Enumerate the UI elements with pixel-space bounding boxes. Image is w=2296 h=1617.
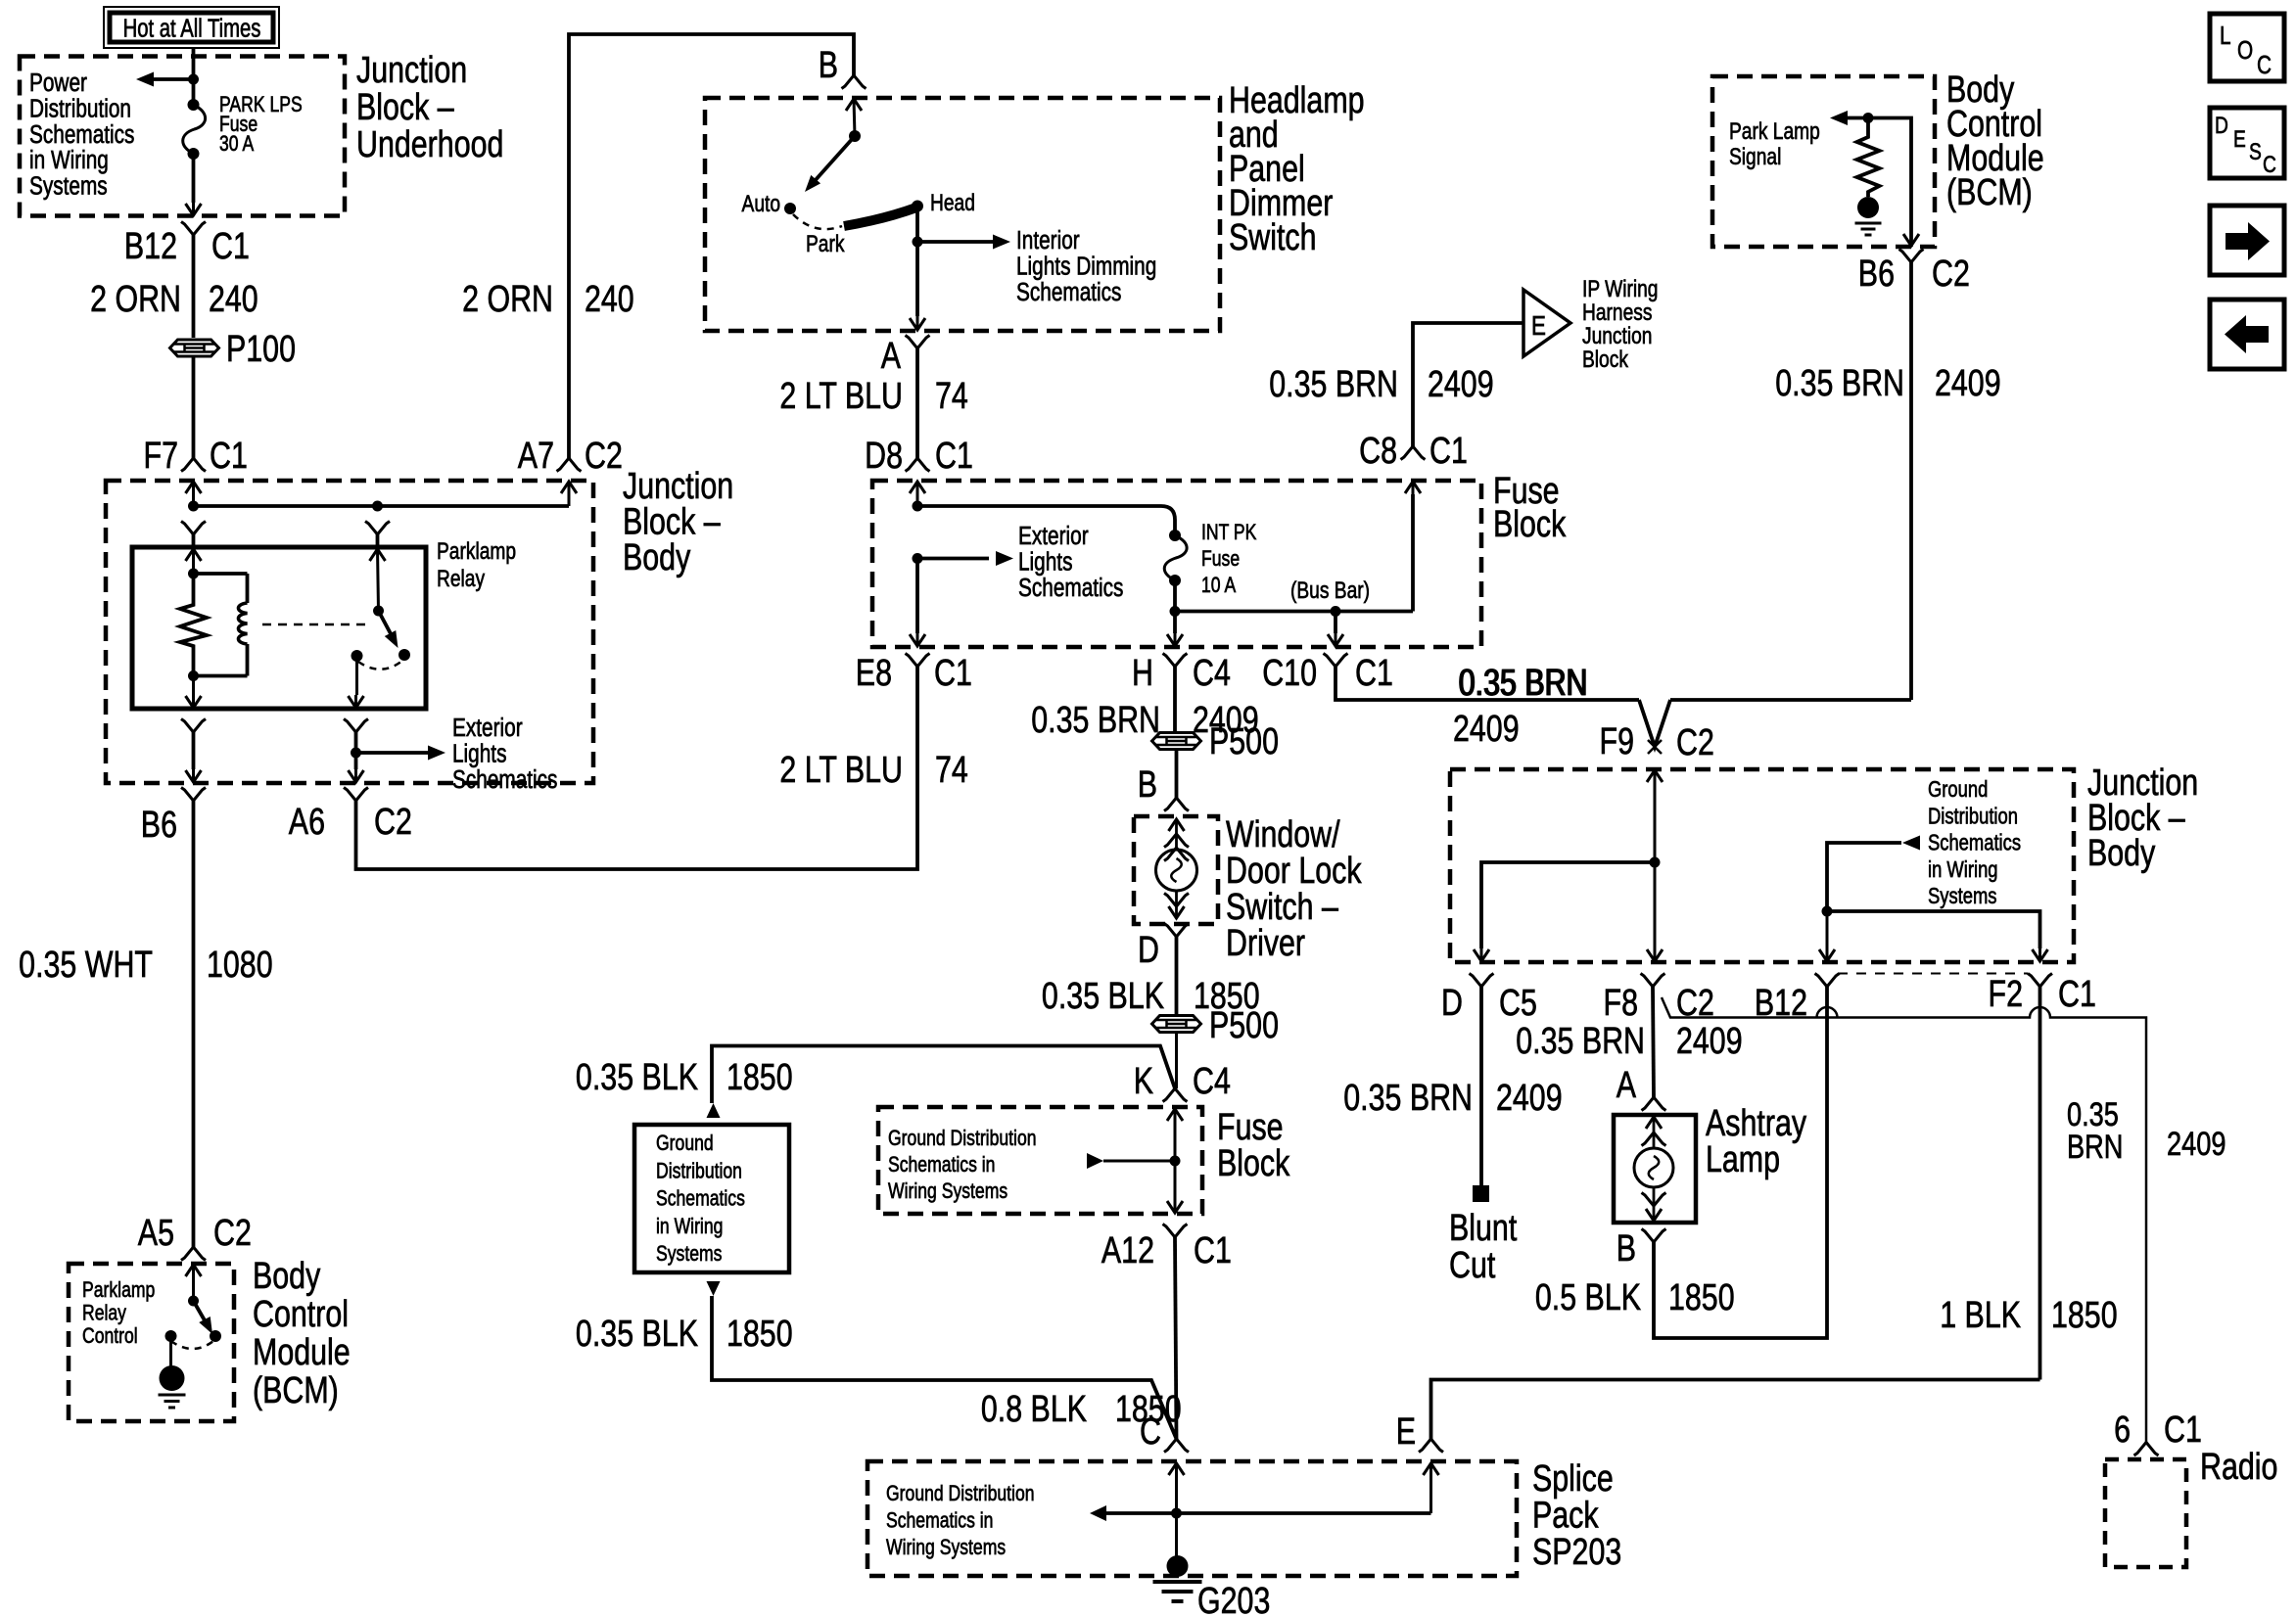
node bus bar left [1170,606,1181,617]
svg-text:B6: B6 [141,805,177,846]
arrow C into splice pack [1169,1463,1185,1475]
wire ashtray B to B12 [1654,987,1827,1338]
arrow A7 up inside JB body [561,482,577,493]
svg-text:Park Lamp: Park Lamp [1729,117,1820,145]
svg-text:240: 240 [209,279,258,320]
svg-text:2409: 2409 [1935,363,2001,404]
svg-text:0.35 BLK: 0.35 BLK [1042,976,1164,1017]
svg-text:SP203: SP203 [1532,1532,1621,1573]
resistor park lamp signal BCM [1857,118,1880,198]
svg-text:2409: 2409 [2167,1125,2226,1163]
thick wiper Park-Head [844,208,916,226]
svg-text:2 LT BLU: 2 LT BLU [779,376,903,417]
svg-text:C1: C1 [934,653,972,694]
svg-text:Control: Control [82,1324,138,1348]
radio dashed box [2105,1459,2186,1567]
svg-text:S: S [2249,138,2262,165]
svg-text:F9: F9 [1600,721,1634,762]
bracket hop at B12 [1817,1007,1838,1018]
arrow B into headlamp switch [846,99,862,111]
svg-text:Window/: Window/ [1226,814,1340,855]
svg-text:Head: Head [930,189,975,216]
arrow out JB body left [186,770,202,782]
connector A7 C2 labels [557,458,582,472]
svg-text:F7: F7 [144,436,178,477]
label Hot at All Times box [104,7,279,48]
node Auto contact [784,203,796,214]
ref arrow ground distribution splice pack [1090,1505,1106,1521]
wire to F2 [1827,911,2040,948]
node relay contact right [398,649,410,661]
wire H out of fuse block [1173,612,1177,634]
title Junction Block - Underhood [356,50,503,165]
connector D window switch [1164,924,1189,938]
arrow out of ashtray [1646,1209,1662,1221]
svg-text:Exterior: Exterior [1018,522,1089,550]
ref arrow ground distribution right [1902,836,1920,851]
connector below relay output [344,719,368,733]
wire to E8 exit [915,559,919,634]
svg-text:Lights: Lights [1018,547,1072,576]
svg-text:240: 240 [585,279,634,320]
svg-text:Schematics: Schematics [656,1187,745,1211]
svg-text:Exterior: Exterior [452,714,523,742]
svg-text:Systems: Systems [656,1242,722,1266]
wire ground distribution to C splice [712,1296,1177,1439]
title Body Control Module BCM right [1946,69,2044,213]
svg-text:Lights: Lights [452,739,506,767]
arrow D out of JB body right [1474,949,1489,961]
arrow into BCM [186,1265,202,1276]
svg-text:0.35 BRN: 0.35 BRN [1031,700,1160,741]
wire C10 out of fuse block [1334,612,1337,634]
svg-text:0.35 BLK: 0.35 BLK [576,1314,698,1355]
ground ball BCM right [1857,197,1879,218]
svg-text:Switch: Switch [1229,217,1317,258]
wire hot feed into junction block [192,48,196,105]
node F9 distribution [1650,857,1661,868]
connector F9 C2 inline V [1639,700,1670,747]
fuse PARK LPS 30A [183,99,206,160]
svg-text:0.8 BLK: 0.8 BLK [981,1389,1087,1430]
ref arrow ground distribution fuse block 2 [1087,1153,1103,1169]
svg-text:Block –: Block – [356,87,454,128]
svg-text:C: C [1140,1411,1161,1453]
wire bus F7 to A7 inside JB body [194,504,570,508]
wire label 0.35 BRN 2409 radio [2067,1095,2123,1166]
svg-text:C: C [2263,151,2276,178]
text Power Distribution Schematics in Wiring Systems [29,69,134,200]
connector D C5 [1470,974,1494,988]
svg-text:B: B [819,45,838,86]
svg-text:in Wiring: in Wiring [29,146,109,174]
node relay coil bottom [188,670,199,681]
arrow out headlamp switch [910,318,925,330]
arrow F9 into JB body right [1647,770,1663,782]
svg-text:C2: C2 [1676,722,1714,763]
svg-text:in Wiring: in Wiring [1928,857,1998,882]
svg-text:Schematics in: Schematics in [886,1509,993,1533]
ground distribution branch right [1827,843,1901,911]
svg-text:Lights Dimming: Lights Dimming [1016,252,1156,280]
svg-text:Schematics: Schematics [1016,278,1121,306]
node BCM contact right [210,1330,221,1342]
node relay switch pivot [373,606,384,617]
ref arrow Exterior Lights fuse block [917,557,989,561]
svg-text:Schematics: Schematics [1018,574,1123,602]
svg-text:0.35 BLK: 0.35 BLK [576,1057,698,1098]
svg-text:2409: 2409 [1428,364,1494,405]
connector A ashtray [1642,1097,1666,1111]
svg-text:Hot at All Times: Hot at All Times [123,14,261,42]
svg-text:D8: D8 [865,436,903,477]
connector B6 JB body [181,788,206,802]
svg-text:Body: Body [253,1256,321,1297]
svg-text:A: A [1617,1065,1636,1106]
title Splice Pack SP203 [1532,1458,1621,1573]
title Fuse Block 2 [1217,1107,1290,1184]
svg-text:Door Lock: Door Lock [1226,851,1362,892]
svg-text:E: E [1531,311,1546,342]
svg-text:0.35 WHT: 0.35 WHT [19,945,153,986]
wire A12 out of fuse block 2 [1174,1161,1177,1200]
ref arrow out of ground distribution box bottom [707,1281,721,1296]
svg-text:Parklamp: Parklamp [437,537,516,565]
relay switch arm [379,611,396,641]
svg-text:C10: C10 [1262,653,1317,694]
svg-text:2409: 2409 [1676,1021,1743,1062]
headlamp switch arm [814,136,855,182]
svg-text:C1: C1 [1355,653,1393,694]
headlamp panel dimmer switch dashed box [705,98,1220,331]
connector C splice pack [1164,1439,1189,1453]
svg-text:Parklamp: Parklamp [82,1278,155,1302]
svg-text:C2: C2 [585,436,623,477]
title Window Door Lock Switch Driver [1226,814,1362,964]
svg-text:0.35 BRN: 0.35 BRN [1459,663,1588,704]
svg-text:1 BLK: 1 BLK [1940,1295,2021,1336]
svg-text:C1: C1 [2164,1409,2202,1451]
dashed arc Auto to Park [793,214,842,229]
svg-text:C4: C4 [1193,1061,1231,1102]
svg-text:B: B [1617,1228,1636,1270]
svg-text:Pack: Pack [1532,1495,1599,1536]
wire P500 to window switch [1175,751,1179,798]
svg-text:0.5 BLK: 0.5 BLK [1535,1277,1641,1318]
connector B ashtray [1642,1229,1666,1243]
svg-text:Auto: Auto [742,190,780,217]
wire F2 to E splice [1431,1380,2040,1440]
svg-text:Fuse: Fuse [1217,1107,1284,1148]
arrow B12 out of JB body right [1819,949,1835,961]
wire B12 down inside [1826,911,1829,948]
connector F8 C2 [1641,974,1665,988]
svg-text:Schematics: Schematics [1928,831,2021,855]
node exterior lights tap fuse block [913,553,923,564]
node fuse block 2 [1170,1156,1181,1167]
svg-text:Ground: Ground [656,1132,714,1155]
svg-text:P100: P100 [226,329,296,370]
text Interior Lights Dimming Schematics [1016,226,1156,306]
arrow out JB body relay output [349,770,364,782]
svg-text:0.35 BRN: 0.35 BRN [1269,364,1398,405]
BCM dashed box right [1712,76,1935,247]
title Junction Block - Body right [2087,762,2198,874]
svg-text:Switch –: Switch – [1226,887,1339,928]
inline connector P500 lower [1152,1016,1201,1033]
svg-text:2 LT BLU: 2 LT BLU [779,750,903,791]
connector B6 C2 BCM [1899,250,1924,263]
ground symbol BCM [159,1395,186,1408]
arrow E into splice pack [1424,1463,1439,1475]
svg-text:Ground: Ground [1928,777,1988,802]
node Head contact [912,201,923,212]
connector B window switch [1164,798,1189,811]
text IP Wiring Harness Junction Block [1582,275,1658,373]
connector A6 C2 [344,788,368,802]
arrow E8 out of fuse block [910,634,925,646]
wire BCM to ground [169,1336,172,1368]
node headlamp switch pivot [849,130,861,142]
svg-text:Distribution: Distribution [1928,804,2018,828]
svg-text:D: D [2215,112,2228,139]
svg-text:Lamp: Lamp [1706,1139,1780,1180]
ashtray lamp box [1614,1115,1696,1223]
text Parklamp Relay Control [82,1278,155,1348]
connector E splice pack [1419,1439,1443,1453]
svg-text:P500: P500 [1209,721,1279,762]
svg-text:Block: Block [1582,346,1628,373]
svg-text:Junction: Junction [356,50,467,91]
fuse block 2 dashed box [878,1107,1202,1214]
icon prev arrow box [2210,300,2284,369]
svg-text:C: C [2257,51,2272,79]
svg-text:E: E [1396,1411,1416,1453]
connector A5 C2 [181,1247,206,1261]
svg-text:B12: B12 [124,226,177,267]
svg-text:E: E [2233,125,2246,153]
wire C8 riser [1411,494,1415,612]
wire coil to relay box bottom [192,676,195,696]
text Exterior Lights Schematics JB body [452,714,557,794]
svg-text:Body: Body [2087,833,2156,874]
node D8 bus [913,501,923,512]
svg-text:1850: 1850 [2051,1295,2118,1336]
svg-text:P500: P500 [1209,1005,1279,1046]
resistor relay [180,574,207,676]
svg-text:D: D [1138,930,1159,971]
arrow C8 up in fuse block [1405,482,1421,493]
connector into relay left [181,522,206,535]
svg-text:2 ORN: 2 ORN [462,279,553,320]
svg-text:Distribution: Distribution [656,1160,742,1183]
arrow F7 into JB body [186,482,202,493]
svg-text:Schematics: Schematics [29,120,134,149]
arrow F2 out of JB body right [2033,949,2048,961]
node relay contact left [351,650,363,662]
text Parklamp Relay [437,537,516,592]
connector A12 C1 [1163,1224,1188,1238]
node BCM switch top [188,1296,199,1307]
svg-text:A: A [881,336,901,377]
svg-text:Fuse: Fuse [1201,547,1240,571]
connector F2 C1 [2028,974,2052,988]
text Park Lamp Signal [1729,117,1820,170]
junction block underhood dashed box [20,57,345,216]
svg-text:C8: C8 [1359,431,1397,472]
connector A headlamp [906,336,930,349]
IP harness junction block triangle E [1523,290,1570,356]
junction block body dashed box left [106,481,593,783]
svg-text:L: L [2220,22,2231,50]
svg-text:BRN: BRN [2067,1128,2123,1166]
title Headlamp and Panel Dimmer Switch [1229,80,1365,258]
pass-through chevron ashtray top [1642,1132,1666,1146]
svg-text:Ground Distribution: Ground Distribution [886,1482,1035,1505]
wire F9 to D C5 [1481,862,1655,948]
window door lock switch dashed box [1134,816,1218,924]
connector B headlamp switch [842,75,867,89]
svg-text:Wiring Systems: Wiring Systems [888,1179,1007,1203]
wire F9 to F8 [1654,862,1657,948]
wire relay output [355,656,358,695]
icon next arrow box [2210,206,2284,275]
svg-text:C2: C2 [1932,254,1970,295]
text INT PK Fuse 10A [1201,521,1257,597]
wire A6 to E8 net 2LTBLU [356,667,918,869]
svg-text:G203: G203 [1197,1581,1270,1617]
svg-text:C4: C4 [1193,653,1231,694]
bracket wire to radio [1662,997,2146,1443]
svg-text:C2: C2 [213,1213,252,1254]
wire BCM to F9 [1670,698,1911,702]
connector E8 C1 [906,654,930,668]
svg-text:B6: B6 [1858,254,1895,295]
lamp ashtray [1634,1148,1673,1187]
text Blunt Cut [1449,1208,1518,1286]
connector C8 C1 [1401,446,1426,460]
ground ball BCM [160,1365,185,1391]
blunt cut square [1473,1185,1489,1202]
node splice G203 [1171,1508,1182,1519]
svg-text:2409: 2409 [1453,709,1520,750]
text Ground Distribution right [1928,777,2021,909]
node hot feed junction [188,74,199,85]
svg-text:30 A: 30 A [219,132,255,156]
K tap wire to ground distribution [712,1046,1175,1104]
ground symbol G203 [1153,1582,1202,1601]
arrow F8 out of JB body right [1647,949,1663,961]
arrow D8 into fuse block [910,482,925,493]
wire D8 to INT PK fuse [917,506,1175,535]
fuse block dashed box [872,481,1481,647]
connector H C4 [1163,654,1188,668]
svg-text:Module: Module [253,1332,351,1373]
connector 6 C1 radio [2134,1443,2159,1456]
svg-text:Systems: Systems [1928,884,1996,908]
svg-text:H: H [1132,653,1153,694]
svg-text:Body: Body [623,537,691,578]
ground symbol BCM right [1855,223,1882,235]
ref arrow park lamp signal [1830,111,1848,125]
svg-text:Schematics in: Schematics in [888,1153,995,1177]
svg-text:1080: 1080 [207,945,273,986]
svg-text:Block: Block [1217,1143,1290,1184]
svg-text:Wiring Systems: Wiring Systems [886,1536,1006,1559]
svg-text:C1: C1 [211,226,250,267]
fuse INT PK 10A [1164,530,1187,586]
svg-text:C5: C5 [1499,983,1537,1024]
svg-text:E8: E8 [856,653,892,694]
svg-text:Radio: Radio [2200,1447,2277,1488]
svg-text:Interior: Interior [1016,226,1080,254]
svg-text:(Bus Bar): (Bus Bar) [1290,577,1370,604]
node interior lights tap [913,237,923,248]
pass-through chevrons window switch top [1164,834,1189,848]
text Ground Distribution splice pack [886,1482,1035,1559]
BCM switch arm [194,1301,210,1327]
connector B12 C1 [181,222,206,236]
svg-text:74: 74 [935,750,968,791]
svg-text:Power: Power [29,69,87,97]
svg-text:0.35 BRN: 0.35 BRN [1775,363,1904,404]
svg-text:(BCM): (BCM) [1946,172,2033,213]
svg-text:Signal: Signal [1729,143,1781,170]
svg-text:1850: 1850 [726,1057,793,1098]
svg-text:Relay: Relay [82,1302,126,1325]
svg-text:C2: C2 [374,802,412,843]
arrow into relay coil [186,549,202,561]
svg-text:Ashtray: Ashtray [1706,1103,1807,1144]
text Ground Distribution Schematics in Wiring Systems box [656,1132,745,1266]
relay coil branch [194,572,248,576]
svg-text:0.35 BRN: 0.35 BRN [1516,1021,1645,1062]
inline connector P500 upper [1152,733,1201,750]
svg-text:Block: Block [1493,504,1567,545]
wire fuse to B12 [192,154,196,203]
svg-text:A12: A12 [1101,1230,1154,1271]
svg-text:10 A: 10 A [1201,574,1237,597]
ref arrow Interior Lights [917,240,993,244]
wire B6 to A5 [192,801,196,1247]
wire fuse to bus bar [1173,580,1177,612]
ref arrow Exterior Lights JB body [356,751,429,755]
svg-text:6: 6 [2114,1409,2131,1451]
dashed throw arc relay [358,661,402,670]
svg-text:A6: A6 [289,802,325,843]
svg-text:INT PK: INT PK [1201,521,1257,544]
node exterior lights tap [351,748,361,759]
svg-text:in Wiring: in Wiring [656,1215,723,1238]
relay box Parklamp Relay [132,547,426,709]
svg-text:Splice: Splice [1532,1458,1614,1500]
svg-text:1850: 1850 [1668,1277,1735,1318]
icon DESC box [2210,108,2284,178]
svg-text:K: K [1134,1061,1153,1102]
ground distribution solid box [634,1125,789,1272]
thin dashed connector link B12 F2 [1838,973,2028,975]
connector below relay left [181,719,206,733]
arrow into ashtray [1646,1117,1662,1129]
junction block body dashed box right [1450,769,2074,962]
node park lamp resistor [1863,113,1874,123]
node bus bar C10 [1331,606,1341,617]
svg-text:(BCM): (BCM) [253,1370,339,1411]
wire C10 to F9 [1335,667,1639,700]
wire P500 to K [1175,1034,1178,1088]
svg-text:F8: F8 [1604,983,1638,1024]
title Junction Block - Body left [623,466,733,578]
